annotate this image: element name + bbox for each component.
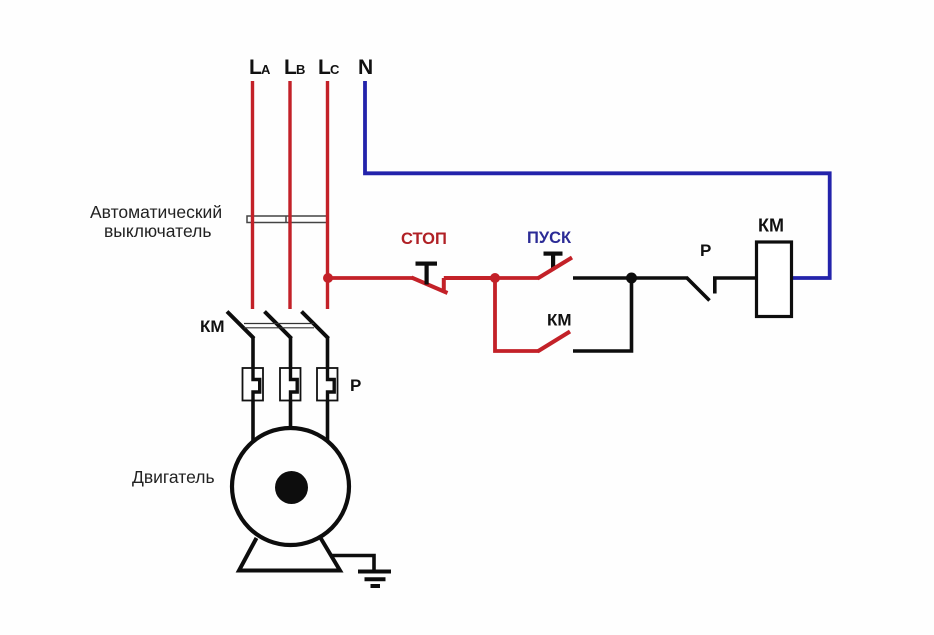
wire start button to P contact [573,276,688,280]
svg-text:C: C [330,62,340,77]
label Lc [318,56,340,79]
stop pushbutton SB1 NC contact blade [412,278,448,294]
contactor KM auxiliary NO contact blade [538,332,571,352]
wire phase La [251,81,254,309]
svg-text:Автоматический: Автоматический [90,202,222,222]
contactor KM main contact phase B blade [265,312,292,339]
wire motor base to ground [330,556,374,572]
node B (black junction dot) [626,273,637,284]
wire phase B contact to heater [289,337,293,369]
svg-text:КМ: КМ [547,311,572,330]
motor rotor dot [275,471,308,504]
svg-text:Двигатель: Двигатель [132,467,215,487]
svg-text:Р: Р [350,376,361,395]
wire heater A to motor [251,400,255,445]
wire Lc node to stop button [328,276,413,280]
start pushbutton SB2 actuator [544,252,563,269]
svg-text:B: B [296,62,305,77]
ground symbol [358,572,391,587]
wire phase Lb [288,81,291,309]
thermal relay heater phase B [280,368,301,401]
thermal relay P fixed contact tick [715,278,756,294]
wire neutral N (blue) [365,81,830,278]
svg-text:N: N [358,56,373,79]
wire heater B to motor [289,400,293,432]
svg-text:A: A [261,62,271,77]
contactor mechanical linkage [244,324,314,328]
stop pushbutton SB1 actuator [416,262,438,285]
svg-text:СТОП: СТОП [401,230,447,248]
node A (red junction dot) [490,273,500,283]
wire phase Lc [326,81,329,309]
svg-text:ПУСК: ПУСК [527,229,572,247]
contactor KM coil [757,242,792,317]
stop pushbutton SB1 fixed contact tick [442,278,446,292]
wire node A to start button [495,276,539,280]
thermal relay P NC contact blade [687,278,710,301]
svg-text:выключатель: выключатель [104,221,211,241]
svg-text:Р: Р [700,241,711,260]
start pushbutton SB2 NO contact blade [538,258,573,279]
node on Lc (red junction dot) [323,273,333,283]
label La [249,56,271,79]
circuit breaker QF box [247,216,328,223]
wire stop to node A [444,276,495,280]
wire aux contact to node B [573,278,632,351]
wire phase A contact to heater [251,337,255,369]
label Автоматический выключатель [90,202,222,241]
svg-text:КМ: КМ [200,317,225,336]
thermal relay heater phase A [243,368,264,401]
wire node A down (seal-in branch) [495,278,539,351]
motor base pedestal [239,537,340,571]
wire heater C to motor [326,400,330,445]
label Lb [284,56,305,79]
motor M circle [232,428,349,545]
contactor KM main contact phase A blade [227,312,254,339]
svg-text:КМ: КМ [758,216,784,236]
wire phase C contact to heater [326,337,330,369]
contactor KM main contact phase C blade [302,312,329,339]
thermal relay heater phase C [317,368,338,401]
